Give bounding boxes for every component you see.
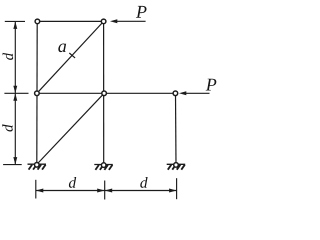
dim arrow up to top tick	[13, 21, 17, 29]
mid beam CDE	[37, 92, 176, 94]
dim arrow left to left tick	[36, 189, 44, 193]
pin support H (right)	[167, 163, 186, 170]
label P2	[206, 79, 217, 91]
dim arrow left from right of mid tick	[105, 189, 113, 193]
pin support F (left)	[28, 163, 47, 170]
label d lower-left (rotated)	[2, 124, 13, 131]
label P1	[136, 6, 147, 18]
dim arrow right to right tick	[169, 189, 177, 193]
left dimension line	[3, 21, 28, 164]
dim arrow up from below mid tick	[13, 93, 17, 101]
top beam AB	[37, 20, 103, 22]
node D (mid-middle)	[102, 91, 107, 96]
dim arrow right to mid tick	[97, 189, 105, 193]
label d bottom-left span	[69, 177, 76, 188]
bottom dimension line	[36, 178, 177, 199]
label d upper-left (rotated)	[3, 53, 14, 60]
pin support G (middle)	[94, 163, 113, 170]
left column ACF	[36, 21, 38, 164]
label d bottom-right span	[140, 177, 147, 188]
tick mark on brace a	[69, 53, 75, 58]
dim arrow down to mid tick	[13, 86, 17, 94]
right column EH	[175, 93, 178, 164]
load arrow P1 at node B	[110, 19, 146, 23]
node E (mid-right)	[173, 91, 178, 96]
diagonal brace a (C to B)	[37, 21, 104, 93]
node C (mid-left)	[35, 91, 40, 96]
node B (top-middle)	[101, 19, 106, 24]
label a	[58, 44, 66, 53]
node A (top-left)	[35, 19, 40, 24]
diagonal brace (F to D)	[37, 93, 104, 164]
dim arrow down to bottom tick	[13, 157, 17, 165]
load arrow P2 at node E	[179, 91, 210, 95]
middle column BDG	[103, 21, 105, 165]
